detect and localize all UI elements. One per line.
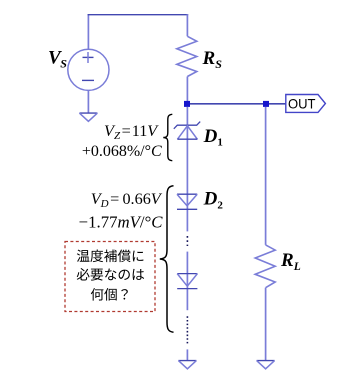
label RL: [280, 250, 301, 273]
wire node B to OUT port: [269, 103, 286, 105]
label VZ tempco line 2: [82, 143, 162, 160]
wire from top rail down to Rs: [186, 14, 188, 36]
brace for D1: [163, 114, 172, 160]
diode D3 (triangle pointing down, bar below): [177, 274, 197, 289]
label VD value line 1: [91, 190, 163, 210]
svg-text:VZ=11V: VZ=11V: [104, 122, 159, 142]
wire Rs bottom to node A: [186, 77, 188, 102]
svg-text:OUT: OUT: [288, 95, 316, 111]
big brace for diode string: [160, 186, 174, 332]
svg-text:−1.77mV/°C: −1.77mV/°C: [79, 213, 164, 232]
ground under VS: [79, 113, 97, 121]
voltage source VS circle: [68, 49, 109, 90]
wire top rail horizontal: [88, 14, 189, 16]
resistor RL zigzag: [255, 245, 275, 288]
zener diode D1 (cathode bar with bent tips, triangle pointing up): [174, 122, 200, 140]
annotation dashed box: [65, 242, 155, 312]
dotted continuation upper: [186, 236, 188, 246]
node B junction: [263, 101, 269, 107]
label D1: [203, 126, 223, 148]
ground right bottom: [257, 361, 275, 369]
wire to left bottom ground: [186, 349, 188, 360]
ground left bottom: [178, 361, 196, 369]
node A junction: [184, 101, 190, 107]
label VS: [48, 47, 67, 70]
minus sign inside VS: [82, 79, 94, 81]
wire RL to right bottom ground: [265, 288, 267, 361]
wire node B down to RL: [265, 107, 267, 245]
wire VS bottom to ground: [87, 90, 89, 113]
annotation text line 2 (JP): [77, 268, 144, 281]
annotation text line 1 (JP): [77, 249, 144, 262]
resistor RS zigzag: [177, 36, 197, 76]
label VZ value line 1: [104, 122, 159, 142]
label RS: [202, 48, 223, 71]
wire node A down to D1 cathode: [186, 107, 188, 231]
diode D2 (triangle pointing down, bar below): [177, 194, 197, 209]
dotted continuation lower: [186, 316, 188, 343]
wire down to D3: [186, 252, 188, 311]
wire top-left vertical from Vs up to top rail: [87, 14, 89, 49]
label D2: [203, 189, 224, 212]
wire node A to node B: [190, 103, 263, 105]
label VD tempco line 2: [79, 213, 164, 232]
plus sign inside VS: [83, 52, 94, 63]
OUT port flag: [286, 95, 326, 113]
svg-text:+0.068%/°C: +0.068%/°C: [82, 143, 162, 160]
annotation text line 3 (JP): [91, 288, 128, 301]
